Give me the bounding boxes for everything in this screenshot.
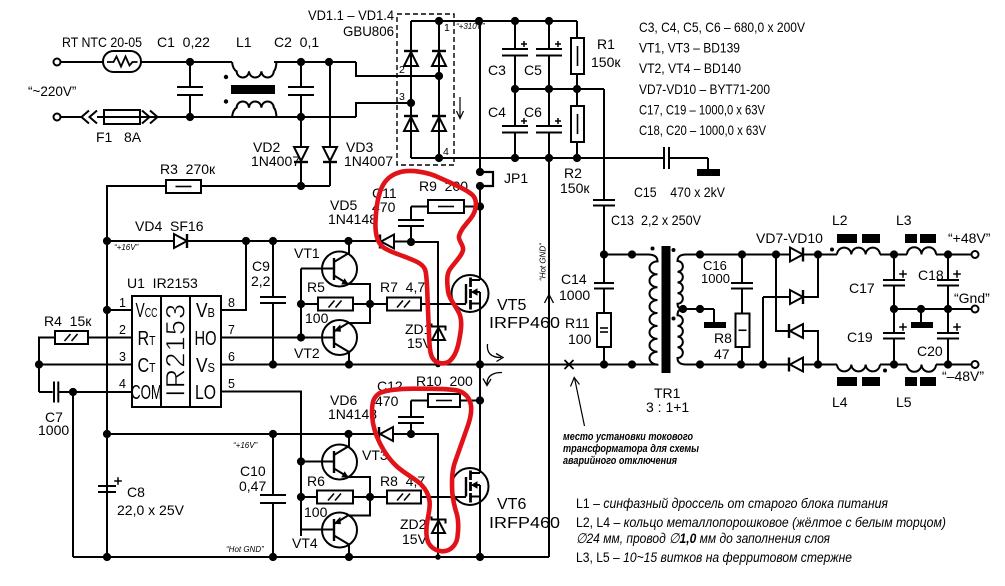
junction C1 bottom — [186, 113, 194, 121]
junction -rail VD9 — [814, 360, 822, 368]
resistor R8 4,7 — [370, 496, 387, 498]
plus C19 — [899, 326, 907, 328]
wire R7 to VT5 gate — [421, 303, 466, 305]
junction C9 top — [269, 237, 277, 245]
capacitor C3 — [514, 21, 516, 49]
zener ZD1 15V — [432, 324, 446, 331]
junction C10 top — [269, 430, 277, 438]
junction VB branch — [242, 237, 250, 245]
wire mid rail — [515, 88, 604, 90]
diode VD10 — [788, 358, 790, 372]
svg-text:VD7-VD10: VD7-VD10 — [756, 230, 823, 246]
diode VD7 — [790, 248, 803, 262]
svg-text:1N4007: 1N4007 — [251, 153, 300, 169]
ground symbol center tap — [713, 309, 715, 322]
svg-text:8: 8 — [228, 296, 235, 310]
junction center tap lead — [696, 305, 704, 313]
junction +rail VD8 — [814, 250, 822, 258]
transformer TR1 secondary winding upper — [678, 255, 687, 310]
wire R8 to VT6 gate — [421, 496, 466, 498]
svg-text:R5: R5 — [307, 279, 325, 295]
junction output gnd — [917, 305, 925, 313]
zener ZD2 15V — [432, 517, 446, 524]
svg-text:ZD2: ZD2 — [400, 516, 427, 532]
ground symbol at C15 — [697, 169, 720, 176]
svg-text:L2, L4 – кольцо металлопорошко: L2, L4 – кольцо металлопорошковое (жёлто… — [576, 514, 946, 530]
junction C4 bottom — [511, 154, 519, 162]
resistor R3 270k — [166, 180, 201, 193]
pin 2 wire — [88, 337, 132, 339]
junction VD8 branch bottom — [759, 360, 767, 368]
resistor R4 15k — [55, 331, 88, 344]
resistor R2 150k — [576, 89, 578, 106]
svg-text:VT2: VT2 — [294, 345, 320, 361]
junction C11/VD5 — [407, 238, 415, 246]
diode VD6 1N4148 — [378, 427, 380, 441]
junction VD2 cathode — [297, 182, 305, 190]
plus C5 — [555, 43, 561, 45]
fuse F1 arrows right — [142, 111, 150, 124]
wire secondary center tap — [683, 308, 714, 310]
junction C20 bottom — [944, 360, 952, 368]
svg-text:C18: C18 — [918, 267, 944, 283]
junction center tap — [679, 305, 687, 313]
transformer TR1 secondary winding lower — [678, 309, 687, 365]
svg-text:7: 7 — [228, 323, 235, 337]
svg-text:L2: L2 — [832, 212, 848, 228]
node terminal -48V — [972, 361, 979, 368]
transformer TR1 primary winding — [648, 255, 658, 365]
transistor VT4 BD140 — [322, 513, 357, 548]
diode VD1.3 — [404, 117, 418, 131]
mosfet VT6 IRFP460 — [452, 468, 489, 505]
bridge left column wire — [410, 21, 412, 158]
L2 core bars — [837, 234, 857, 243]
wire to primary top — [604, 254, 648, 256]
diode VD1.2 — [432, 52, 446, 66]
svg-text:VT5: VT5 — [497, 297, 526, 314]
svg-text:L3: L3 — [896, 212, 912, 228]
svg-text:C4: C4 — [488, 104, 506, 120]
capacitor C12 470 — [410, 401, 412, 418]
svg-text:1000: 1000 — [559, 287, 590, 303]
arrow up on hot gnd line — [545, 295, 554, 304]
svg-text:1000: 1000 — [701, 271, 730, 286]
svg-text:2: 2 — [119, 323, 126, 337]
pin 7 wire HO — [221, 337, 301, 339]
svg-text:F1 8A: F1 8A — [96, 129, 142, 145]
mosfet VT5 IRFP460 — [452, 275, 489, 312]
svg-text:C9: C9 — [252, 258, 270, 274]
svg-text:3: 3 — [119, 350, 126, 364]
svg-text:трансформатора для схемы: трансформатора для схемы — [563, 443, 700, 455]
svg-text:“Gnd”: “Gnd” — [954, 290, 990, 306]
wire +310V top rail — [439, 20, 577, 22]
L2 phase dot — [830, 248, 834, 252]
junction HO node R5 left — [297, 300, 305, 308]
svg-text:IR2153: IR2153 — [161, 303, 191, 397]
svg-text:4: 4 — [119, 377, 126, 391]
capacitor C16 1000 — [741, 255, 743, 284]
svg-text:1N4007: 1N4007 — [344, 153, 393, 169]
svg-text:L4: L4 — [832, 394, 848, 410]
wire L4 to L5 — [880, 364, 907, 366]
svg-text:L1 – синфазный дроссель от ста: L1 – синфазный дроссель от старого блока… — [576, 495, 888, 511]
junction VT3 collector — [344, 430, 352, 438]
capacitor C11 470 — [410, 207, 412, 221]
wire rail to C9/VT1 — [246, 240, 380, 242]
capacitor C1 0,22 — [189, 62, 191, 87]
resistor R5 100 — [301, 303, 318, 305]
svg-text:C2 0,1: C2 0,1 — [274, 34, 319, 50]
svg-text:аварийного отключения: аварийного отключения — [563, 455, 677, 467]
svg-text:C6: C6 — [524, 104, 542, 120]
pin 8 wire VB — [221, 241, 246, 310]
junction R2 bottom — [573, 154, 581, 162]
L1 phase dot top — [224, 75, 228, 79]
junction C18/C20 — [944, 305, 952, 313]
transistor VT2 BD140 — [322, 320, 357, 355]
capacitor C2 0,1 — [300, 62, 302, 87]
pin 1 wire — [107, 309, 132, 311]
L3 core bars — [905, 234, 917, 243]
wire L1 bottom to bridge — [140, 116, 356, 118]
svg-text:3: 3 — [399, 91, 405, 103]
capacitor C7 1000 — [39, 391, 53, 393]
capacitor C20 — [947, 309, 949, 333]
junction secondary bottom lead — [696, 360, 704, 368]
svg-text:C17, C19 – 1000,0 x 63V: C17, C19 – 1000,0 x 63V — [639, 102, 766, 118]
svg-text:HO: HO — [195, 326, 217, 349]
plus C8 — [114, 480, 122, 482]
L5 core bars — [905, 377, 917, 386]
diode VD5 1N4148 — [379, 235, 381, 249]
TR1 secondary phase dot lower — [672, 317, 676, 321]
junction VD3 top — [325, 58, 333, 66]
resistor R7 4,7 — [370, 303, 387, 305]
capacitor C19 — [893, 309, 895, 333]
svg-text:VT1: VT1 — [294, 245, 320, 261]
svg-text:C8: C8 — [127, 484, 145, 500]
svg-text:C14: C14 — [561, 271, 587, 287]
wire step up to bridge pin3 — [356, 103, 411, 117]
svg-text:U1 IR2153: U1 IR2153 — [127, 275, 198, 291]
wire L5 to -48V terminal — [936, 364, 972, 366]
diode VD3 1N4007 — [329, 62, 331, 147]
svg-text:LO: LO — [195, 380, 216, 403]
junction ZD2 bottom — [435, 554, 441, 560]
junction C7/COM — [69, 388, 77, 396]
capacitor C6 — [548, 89, 550, 126]
junction VT5 source midpoint — [476, 360, 484, 368]
svg-text:150к: 150к — [560, 180, 590, 196]
svg-text:2: 2 — [399, 64, 405, 76]
resistor R9 200 — [411, 206, 428, 208]
junction emitters R6/R8 — [366, 493, 374, 501]
svg-text:C19: C19 — [847, 329, 873, 345]
svg-text:C5: C5 — [524, 62, 542, 78]
junction R8 bottom — [737, 360, 745, 368]
plus C17 — [899, 273, 907, 275]
svg-text:4: 4 — [443, 146, 449, 158]
junction R4/CT — [35, 360, 43, 368]
svg-text:“Hot GND”: “Hot GND” — [539, 243, 548, 281]
wire VT6 source — [479, 497, 481, 558]
junction pin1 Vcc — [103, 306, 111, 314]
junction VT6 source bottom — [476, 553, 484, 561]
svg-text:R2: R2 — [564, 165, 582, 181]
pin 6 wire VS / midpoint bus — [221, 364, 648, 366]
junction C19 bottom — [890, 360, 898, 368]
svg-text:L3, L5 – 10~15 витков на ферри: L3, L5 – 10~15 витков на ферритовом стер… — [576, 549, 852, 565]
svg-text:150к: 150к — [591, 54, 621, 70]
pin 3 wire CT — [39, 364, 132, 366]
wire secondary bottom — [686, 364, 789, 366]
junction R11 bottom — [600, 360, 608, 368]
resistor R8 47 (snubber) — [736, 314, 750, 348]
junction primary bottom — [628, 360, 636, 368]
svg-text:JP1: JP1 — [504, 170, 528, 186]
x mark current transformer position — [565, 360, 574, 369]
wire JP1 to VT5 drain — [479, 186, 481, 280]
wire R4 to CT — [39, 338, 55, 393]
ground symbol output — [920, 309, 922, 322]
inductor L1 common-mode choke — [232, 62, 277, 78]
junction C5/C6 — [545, 85, 553, 93]
junction C17 top — [890, 250, 898, 258]
svg-text:1: 1 — [119, 296, 126, 310]
resistor R6 100 — [301, 496, 317, 498]
bridge right column wire — [438, 21, 440, 158]
junction C6 bottom / hot-gnd line — [545, 154, 553, 162]
capacitor C5 — [548, 21, 550, 49]
junction Vcc rail left — [103, 237, 111, 245]
junction R10 right — [476, 396, 484, 404]
svg-text:6: 6 — [228, 350, 235, 364]
junction C13/C14 node — [600, 250, 608, 258]
red annotation loop upper — [375, 171, 475, 363]
node terminal Gnd — [972, 306, 979, 313]
wire +16V rail upper — [107, 240, 174, 242]
junction ZD1 bottom — [435, 362, 441, 368]
svg-text:100: 100 — [305, 310, 329, 326]
node terminal +48V — [972, 251, 979, 258]
junction R9 right — [476, 202, 484, 210]
wire VD5 node to ZD1 column — [411, 242, 438, 365]
svg-text:5: 5 — [228, 377, 235, 391]
svg-text:R1: R1 — [597, 36, 615, 52]
svg-text:C1 0,22: C1 0,22 — [157, 34, 210, 50]
svg-text:15V: 15V — [402, 531, 428, 547]
junction VT1 collector — [344, 237, 352, 245]
diode VD8 — [763, 296, 790, 298]
svg-text:RT NTC 20-05: RT NTC 20-05 — [62, 34, 142, 50]
plus C3 — [521, 43, 527, 45]
junction top rail VT5 branch — [475, 17, 483, 25]
inductor L3 — [907, 247, 936, 254]
wire thermistor to L1 top — [141, 61, 232, 63]
junction C18 top — [944, 250, 952, 258]
L4 core bars — [837, 377, 857, 386]
wire mid rail to C13 — [603, 89, 605, 200]
wire Vcc vertical — [106, 186, 108, 557]
junction C2 top — [297, 58, 305, 66]
svg-text:2,2: 2,2 — [251, 273, 271, 289]
junction bridge pin3 — [407, 99, 415, 107]
node input terminal N (bottom) — [54, 114, 61, 121]
wire L2 to L3 — [880, 254, 907, 256]
svg-text:VT4: VT4 — [292, 535, 318, 551]
diode VD4 SF16 — [174, 234, 187, 248]
svg-text:C18, C20 – 1000,0 x 63V: C18, C20 – 1000,0 x 63V — [639, 122, 767, 138]
wire VD6 node to ZD2 column — [411, 434, 438, 557]
junction C10 bottom — [269, 553, 277, 561]
svg-text:“Hot GND”: “Hot GND” — [226, 545, 264, 554]
svg-text:C20: C20 — [917, 343, 943, 359]
L1 phase dot bottom — [224, 99, 228, 103]
red annotation loop lower — [372, 389, 471, 552]
svg-text:0,47: 0,47 — [239, 478, 266, 494]
svg-text:C13 2,2 x 250V: C13 2,2 x 250V — [611, 212, 702, 228]
svg-text:1: 1 — [444, 22, 450, 34]
current direction arrow in bridge — [459, 97, 461, 117]
junction R1/R2 — [573, 85, 581, 93]
TR1 primary phase dot — [651, 247, 655, 251]
wire secondary top — [686, 254, 790, 256]
junction HO pin — [297, 333, 305, 341]
pin 5 wire LO — [221, 392, 301, 537]
thermistor RT NTC 20-05 — [103, 51, 141, 72]
wire L3 to +48V terminal — [936, 254, 972, 256]
transistor VT3 BD139 — [322, 445, 357, 480]
wire gnd mid rail — [894, 308, 972, 310]
wire top rail to JP1 — [479, 21, 481, 172]
svg-text:1N4148: 1N4148 — [328, 211, 377, 227]
wire hot gnd vertical — [548, 158, 550, 557]
svg-text:∅24 мм, провод ∅1,0 мм до запо: ∅24 мм, провод ∅1,0 мм до заполнения сло… — [576, 530, 830, 546]
wire input bottom to fuse — [61, 116, 83, 118]
capacitor C13 2,2x250V — [593, 199, 615, 201]
junction C5 top — [545, 17, 553, 25]
wire COM to bottom rail — [72, 392, 74, 557]
wire R3 to Vcc rail — [107, 186, 166, 241]
junction R6 left — [297, 493, 305, 501]
junction emitters R5/R7 — [366, 300, 374, 308]
junction VT4 collector bottom — [345, 553, 353, 561]
capacitor C10 0,47 — [272, 434, 274, 495]
inductor L2 — [837, 248, 880, 255]
svg-text:“+16V”: “+16V” — [114, 243, 139, 252]
capacitor C8 22,0x25V — [98, 485, 116, 487]
plus C18 — [953, 273, 961, 275]
curved arrow below midpoint — [487, 373, 502, 385]
bridge rectifier VD1.1-VD1.4 GBU806 dashed outline — [397, 14, 454, 165]
svg-text:3 : 1+1: 3 : 1+1 — [646, 399, 689, 415]
svg-text:R4 15к: R4 15к — [44, 313, 92, 329]
junction LO at VT3 base — [297, 457, 305, 465]
svg-text:C3: C3 — [488, 62, 506, 78]
svg-text:VT1, VT3 – BD139: VT1, VT3 – BD139 — [639, 40, 740, 56]
wire fuse to L1 bottom — [140, 116, 232, 118]
wire HO vertical to bases — [300, 269, 302, 338]
junction C3/C4 — [511, 85, 519, 93]
wire VD8 anode — [762, 297, 764, 365]
capacitor C15 470x2kV — [663, 147, 665, 169]
svg-text:COM: COM — [131, 380, 162, 403]
svg-text:VD7-VD10 – BYT71-200: VD7-VD10 – BYT71-200 — [639, 81, 770, 97]
plus C6 — [555, 120, 561, 122]
fuse F1 arrows left — [82, 111, 90, 124]
svg-text:место установки токового: место установки токового — [563, 431, 693, 443]
diode VD9 — [776, 255, 789, 332]
plus C4 — [521, 120, 527, 122]
arrow to x mark — [575, 378, 585, 426]
plus C20 — [953, 326, 961, 328]
junction C16 top — [738, 250, 746, 258]
junction bridge output pos — [435, 17, 443, 25]
svg-text:“~220V”: “~220V” — [28, 84, 76, 99]
resistor R1 150k — [576, 21, 578, 38]
svg-text:1000: 1000 — [38, 422, 69, 438]
svg-text:L1: L1 — [236, 34, 252, 50]
junction C9 bottom — [269, 360, 277, 368]
L1 core — [231, 85, 275, 94]
svg-text:“+48V”: “+48V” — [948, 230, 991, 246]
capacitor C17 — [893, 255, 895, 281]
svg-text:100: 100 — [304, 504, 328, 520]
junction C12/VD6 — [407, 430, 415, 438]
resistor R10 200 — [411, 400, 428, 402]
svg-text:R6: R6 — [307, 473, 325, 489]
bridge bottom bus — [411, 157, 439, 159]
wire input top to thermistor — [61, 61, 104, 63]
svg-text:“+16V”: “+16V” — [233, 441, 258, 450]
svg-text:VT6: VT6 — [497, 496, 526, 513]
junction Vcc lower rail — [103, 430, 111, 438]
fuse F1 8A — [104, 110, 140, 124]
svg-text:VD4 SF16: VD4 SF16 — [135, 218, 204, 234]
svg-text:C10: C10 — [240, 463, 266, 479]
svg-text:GBU806: GBU806 — [343, 23, 394, 39]
TR1 core — [662, 246, 671, 373]
jumper JP1 — [476, 168, 484, 176]
wire VT6 drain — [479, 365, 481, 474]
capacitor C9 2,2 — [272, 241, 274, 297]
wire VD2/VD3 cathodes to R3 — [201, 185, 330, 187]
capacitor C18 — [947, 255, 949, 281]
inductor L4 — [837, 365, 880, 372]
L4 phase dot — [883, 369, 887, 373]
diode VD2 1N4007 — [300, 117, 302, 147]
svg-text:C17: C17 — [849, 280, 875, 296]
svg-text:R8: R8 — [714, 330, 732, 346]
TR1 secondary phase dot upper — [672, 248, 676, 252]
junction bridge pin2 — [435, 72, 443, 80]
node input terminal L (top) — [54, 59, 61, 66]
chip U1 IR2153 body — [132, 296, 221, 407]
svg-text:VD1.1 – VD1.4: VD1.1 – VD1.4 — [308, 7, 394, 23]
junction C17/C19 — [890, 305, 898, 313]
junction primary top — [628, 250, 636, 258]
svg-text:C15 470 x 2kV: C15 470 x 2kV — [634, 184, 726, 200]
wire negative bus — [439, 157, 664, 159]
junction VD9 branch top — [772, 250, 780, 258]
junction Vcc bottom — [103, 553, 111, 561]
svg-text:100: 100 — [568, 331, 592, 347]
resistor R11 100 — [597, 313, 611, 347]
junction VT2 collector midpoint — [345, 360, 353, 368]
svg-text:VT2, VT4 – BD140: VT2, VT4 – BD140 — [639, 60, 741, 76]
